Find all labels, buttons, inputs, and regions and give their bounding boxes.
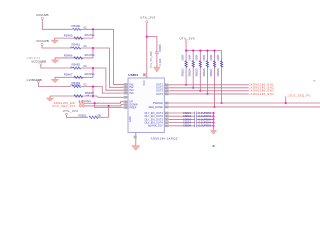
svg-text:VCCHVB: VCCHVB: [36, 13, 49, 17]
svg-text:UTIL_3V3: UTIL_3V3: [180, 36, 195, 40]
pin PWRGD box: [164, 102, 168, 105]
wire join ch2: [91, 48, 94, 58]
ground arrow ch4: [46, 98, 53, 101]
power symbol ch1: [41, 17, 43, 19]
svg-text:UTIL_3V3: UTIL_3V3: [63, 109, 78, 113]
wire bank feed: [186, 43, 222, 51]
wire node ch1: [81, 29, 124, 84]
pin GND box: [134, 136, 137, 139]
capacitor C5802: [194, 115, 196, 118]
resistor R5466: [74, 57, 83, 60]
junction R5469: [92, 95, 94, 97]
wire cap2 right: [197, 115, 214, 118]
wire SEQ_DONE: [169, 105, 320, 108]
junction tap2: [285, 102, 287, 104]
ground arrow ch3: [51, 79, 58, 82]
wire OUT1: [169, 83, 249, 86]
pin DLY_EN_OUT3 box: [164, 118, 168, 121]
junction ch1: [92, 28, 94, 30]
pin DOWN box: [124, 103, 128, 106]
svg-text:R5469: R5469: [85, 91, 94, 95]
wire cap bank gnd: [212, 113, 215, 130]
wire rowB ch3: [55, 77, 93, 79]
junction out R5828: [221, 102, 223, 104]
wire tap SOC_SEQ_PG: [284, 96, 287, 103]
wire node ch2: [81, 48, 124, 87]
wire node ch4: [81, 87, 124, 94]
svg-text:R5460: R5460: [72, 24, 81, 28]
resistor R5469: [74, 95, 83, 98]
svg-text:VCCHVB: VCCHVB: [36, 39, 49, 43]
svg-text:R5461: R5461: [72, 43, 81, 47]
junction out R5825: [199, 90, 201, 92]
wire DLY5: [169, 124, 195, 127]
wire rowB ch4: [50, 96, 93, 98]
pin OUT2 box: [164, 86, 168, 89]
power symbol ch3: [40, 63, 42, 65]
resistor R5463: [73, 85, 81, 87]
wire R5469 to PREF2: [93, 96, 124, 97]
wire DLY3: [169, 118, 195, 121]
resistor R5825: [199, 61, 202, 68]
resistor R5467: [74, 76, 83, 79]
wire node ch3: [81, 68, 124, 90]
wire bank col R5823: [184, 51, 187, 85]
pin PREF box: [124, 106, 128, 109]
pin IN2 box: [124, 86, 128, 89]
svg-text:R5462: R5462: [72, 63, 81, 67]
resistor R5465: [74, 37, 83, 40]
junction out R5823: [185, 84, 187, 86]
pin OUT1 box: [164, 83, 168, 86]
svg-text:1.1VBGEBB: 1.1VBGEBB: [26, 78, 42, 82]
svg-text:R5467: R5467: [64, 73, 73, 77]
wire join ch4: [91, 87, 94, 97]
power symbol UTIL_3V3 bottom: [65, 113, 67, 115]
junction DOWN tap: [108, 105, 110, 107]
wire bank col R5825: [199, 51, 202, 91]
ground arrow ch2: [51, 60, 58, 63]
wire UP: [85, 102, 124, 104]
svg-text:UTIL_3V3: UTIL_3V3: [140, 16, 155, 20]
offpage connector offpage1: [79, 102, 81, 104]
wire R5832 right: [98, 116, 109, 119]
wire bank col R5824: [192, 51, 195, 88]
ground arrow C5806: [154, 67, 160, 72]
svg-text:C5805: C5805: [183, 124, 192, 128]
wire OUT4: [169, 92, 249, 95]
pin IN1 box: [124, 83, 128, 86]
wire join ch3: [91, 68, 94, 77]
resistor R5460: [73, 28, 81, 30]
wire DLY2: [169, 115, 195, 118]
junction bank R5827: [213, 49, 215, 51]
junction bank R5826: [206, 49, 208, 51]
junction out R5826: [206, 93, 208, 95]
marker green dot: [213, 145, 215, 147]
wire bank col R5826: [206, 51, 209, 94]
wire pullup riser: [107, 106, 110, 117]
junction bank R5823: [185, 49, 187, 51]
wire bank col R5827: [213, 51, 216, 107]
offpage connector offpage2: [79, 105, 81, 107]
junction out R5827: [213, 106, 215, 108]
svg-text:0EAWE0: 0EAWE0: [71, 84, 82, 87]
ground arrow ch1: [51, 40, 58, 43]
resistor R5832: [89, 116, 98, 119]
junction UP tap: [94, 102, 96, 104]
resistor R5828: [220, 61, 223, 68]
wire cap gnd: [155, 54, 158, 67]
resistor R5823: [185, 61, 188, 68]
pin GND stub: [134, 133, 137, 146]
wire cap4 right: [197, 121, 214, 124]
wire rowB ch2: [55, 58, 93, 60]
junction out R5824: [192, 87, 194, 89]
wire rail ch4: [39, 83, 72, 87]
wire PWRGD: [169, 101, 320, 104]
wire R5832 net: [67, 115, 89, 117]
power symbol ch2: [41, 43, 43, 45]
svg-text:U5800: U5800: [128, 73, 138, 77]
capacitor C5805: [194, 124, 196, 127]
pin UP box: [124, 100, 128, 103]
wire PREF: [95, 103, 124, 107]
junction cap4: [212, 122, 214, 124]
junction cap5: [212, 125, 214, 127]
wire OUT3: [169, 89, 249, 92]
capacitor C5801: [194, 112, 196, 115]
power symbol ch4: [37, 80, 39, 82]
wire OUT2: [169, 86, 249, 89]
pin OUT3 box: [164, 89, 168, 92]
pin SEQ_DONE box: [164, 106, 168, 109]
junction ch2: [92, 47, 94, 49]
pin OUT4 box: [164, 93, 168, 96]
wire rail ch1: [42, 20, 72, 30]
IC U5800 body: [128, 78, 164, 133]
pin DLY_EN_OUT2 box: [164, 115, 168, 118]
svg-text:4.2KOhm: 4.2KOhm: [78, 99, 91, 103]
wire join ch1: [91, 29, 94, 38]
wire DOWN: [85, 105, 124, 106]
pin VCC box: [143, 73, 146, 76]
pin P5 box: [124, 96, 128, 99]
wire rail ch3: [41, 65, 73, 68]
wire DLY4: [169, 121, 195, 124]
capacitor C5806: [155, 51, 159, 53]
wire cap1 right: [197, 111, 214, 114]
pin IN4 box: [124, 92, 128, 95]
capacitor C5803: [194, 118, 196, 121]
wire bank col R5828: [220, 51, 223, 104]
wire rail ch2: [42, 45, 72, 48]
resistor R5461: [73, 47, 81, 49]
resistor R5826: [206, 61, 209, 68]
power symbol UTIL_3V3 bank: [185, 40, 187, 42]
svg-text:R5465: R5465: [64, 34, 73, 38]
junction cap2: [212, 115, 214, 117]
wire cap branch: [147, 37, 157, 52]
pin DLY_EN_OUT4 box: [164, 121, 168, 124]
junction cap1: [212, 112, 214, 114]
resistor R5827: [213, 61, 216, 68]
pin DLY_EN_OUT1 box: [164, 112, 168, 115]
ground arrow cap bank: [210, 130, 216, 134]
resistor R5462: [73, 67, 81, 69]
wire VCC: [145, 23, 148, 78]
power symbol UTIL_3V3 top: [146, 21, 148, 23]
junction bank R5824: [192, 49, 194, 51]
ground arrow GND: [132, 146, 140, 151]
junction ch4: [92, 85, 94, 87]
wire cap3 right: [197, 118, 214, 121]
junction ch3: [92, 67, 94, 69]
svg-text:0.1UFDNI: 0.1UFDNI: [198, 124, 211, 128]
capacitor C5804: [194, 121, 196, 124]
svg-text:R5466: R5466: [64, 53, 73, 57]
pin BLANK_DLY box: [164, 124, 168, 127]
wire rowB ch1: [55, 38, 93, 40]
junction bank R5825: [199, 49, 201, 51]
junction cap3: [212, 118, 214, 120]
wire cap5 right: [197, 124, 214, 127]
resistor R5824: [192, 61, 195, 68]
junction VCC branch: [146, 36, 148, 38]
pin IN3 box: [124, 89, 128, 92]
wire DLY1: [169, 111, 195, 114]
